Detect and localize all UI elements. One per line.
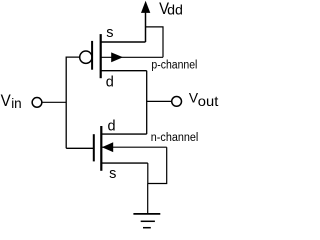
terminal Vin <box>32 98 42 108</box>
pin s stub of Q1 <box>101 41 146 43</box>
transistor Q1 p-channel channel plate <box>100 34 102 78</box>
svg-text:d: d <box>108 118 116 134</box>
svg-text:dd: dd <box>167 2 183 18</box>
wire Q1 drain down to output node <box>146 71 148 134</box>
svg-text:d: d <box>106 75 114 91</box>
body arrow of Q2 <box>102 142 113 152</box>
transistor Q2 n-channel gate plate <box>93 134 95 161</box>
pin body stub of Q2 <box>101 146 166 148</box>
wire Q2 source down to ground junction <box>147 163 149 183</box>
svg-text:out: out <box>198 93 219 109</box>
wire Q1 body to Vdd <box>146 27 164 57</box>
terminal Vout <box>172 97 182 107</box>
ground bar 3 <box>143 227 151 229</box>
pin body stub of Q1 <box>101 56 163 58</box>
transistor Q1 p-channel gate plate <box>91 41 93 70</box>
pin d stub of Q2 <box>101 133 146 135</box>
svg-text:s: s <box>106 25 113 41</box>
ground bar 2 <box>141 220 155 222</box>
wire Q2 body down to ground junction <box>148 147 167 183</box>
pin s stub of Q2 <box>101 162 148 164</box>
pin d stub of Q1 <box>101 70 147 72</box>
svg-text:in: in <box>11 96 22 111</box>
ground bar 1 <box>133 213 160 215</box>
inversion bubble on gate of Q1 <box>80 51 92 63</box>
svg-text:n-channel: n-channel <box>151 132 199 144</box>
body arrow of Q1 <box>111 52 123 62</box>
power Vdd arrowhead <box>141 1 150 13</box>
svg-text:V: V <box>1 92 11 110</box>
wire Q1 source to Vdd <box>145 11 147 42</box>
transistor Q2 n-channel channel plate <box>100 126 102 171</box>
wire output node to Vout terminal <box>147 100 172 102</box>
wire gate bus vertical <box>66 57 80 148</box>
svg-text:s: s <box>109 166 116 182</box>
wire Vin to gate bus <box>42 101 66 103</box>
wire gate bus to Q2 gate <box>66 147 94 149</box>
wire ground lead <box>147 184 149 214</box>
svg-text:p-channel: p-channel <box>151 60 197 72</box>
